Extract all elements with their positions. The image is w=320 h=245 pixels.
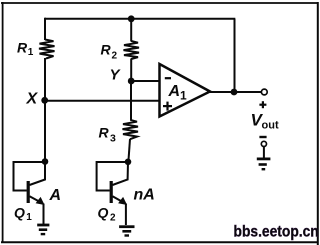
svg-text:A: A <box>168 83 181 100</box>
resistor R2 <box>124 41 140 59</box>
op-amp A1 <box>160 64 211 117</box>
label A1 <box>168 83 188 103</box>
wire Q1 base loop <box>14 162 46 191</box>
junction dot Q2 collector-base <box>125 159 132 166</box>
wire top rail <box>45 18 235 20</box>
wire R3 to Q2 collector node <box>128 139 130 162</box>
transistor Q2 <box>111 162 128 205</box>
svg-text:R: R <box>101 42 112 58</box>
wire left branch upper (top rail to R1) <box>44 18 46 40</box>
wire Y node down to R3 <box>130 81 132 121</box>
wire Vout ground <box>263 147 265 159</box>
svg-text:Q: Q <box>14 205 25 221</box>
wire X node to Q1 collector <box>44 101 46 162</box>
svg-text:Y: Y <box>110 67 122 84</box>
svg-text:1: 1 <box>28 47 34 58</box>
ground symbol Q1 <box>37 225 49 234</box>
label Vout <box>251 111 279 132</box>
wire Q1 emitter to ground <box>43 204 45 225</box>
border frame right <box>317 2 319 245</box>
label Q2 <box>98 205 117 224</box>
svg-text:Q: Q <box>98 205 109 221</box>
label X <box>26 91 39 108</box>
wire Y to op-amp inverting input <box>131 80 159 82</box>
wire op-amp output <box>209 91 262 93</box>
svg-text:2: 2 <box>112 51 118 62</box>
svg-text:bbs.eetop.cn: bbs.eetop.cn <box>234 223 319 241</box>
wire Q2 base loop <box>97 162 128 191</box>
ground symbol Vout <box>257 159 271 169</box>
wire feedback from output to top rail <box>234 19 236 92</box>
border frame top <box>1 2 319 4</box>
label Y <box>110 67 122 84</box>
svg-text:2: 2 <box>110 213 116 224</box>
svg-text:3: 3 <box>110 133 116 145</box>
label R1 <box>17 40 34 59</box>
ground symbol Q2 <box>119 227 134 236</box>
wire R1 to X node <box>44 58 46 101</box>
Vout ground terminal circle <box>261 141 266 146</box>
wire Q2 emitter to ground <box>125 204 127 226</box>
svg-text:X: X <box>26 91 39 108</box>
svg-text:R: R <box>99 125 110 141</box>
label nA (emitter area ratio) <box>134 187 155 204</box>
wire R2 to Y node <box>130 59 132 82</box>
label plus sign of Vout <box>259 101 266 108</box>
label R2 <box>101 42 118 62</box>
border frame bottom <box>1 241 319 243</box>
wire top rail to R2 <box>130 19 132 42</box>
label A (emitter area ratio) <box>49 187 62 204</box>
label Q1 <box>14 205 32 224</box>
node Y junction dot <box>128 78 135 85</box>
watermark bbs.eetop.cn <box>234 223 319 241</box>
transistor Q1 <box>28 162 45 206</box>
wire X to op-amp non-inverting input <box>45 100 160 102</box>
junction dot top rail / R2 <box>128 15 135 22</box>
svg-text:1: 1 <box>180 89 187 103</box>
svg-text:1: 1 <box>26 212 32 223</box>
output terminal open circle <box>261 89 267 95</box>
resistor R3 <box>123 120 139 139</box>
resistor R1 <box>39 40 55 59</box>
border frame left <box>2 2 4 242</box>
svg-text:A: A <box>49 187 62 204</box>
junction dot output node <box>231 89 238 96</box>
svg-text:out: out <box>262 120 279 132</box>
svg-text:R: R <box>17 40 28 56</box>
label R3 <box>99 125 117 145</box>
node X junction dot <box>41 97 48 104</box>
label minus sign of Vout <box>259 136 266 138</box>
svg-text:nA: nA <box>134 187 155 204</box>
junction dot Q1 collector-base <box>42 158 49 165</box>
